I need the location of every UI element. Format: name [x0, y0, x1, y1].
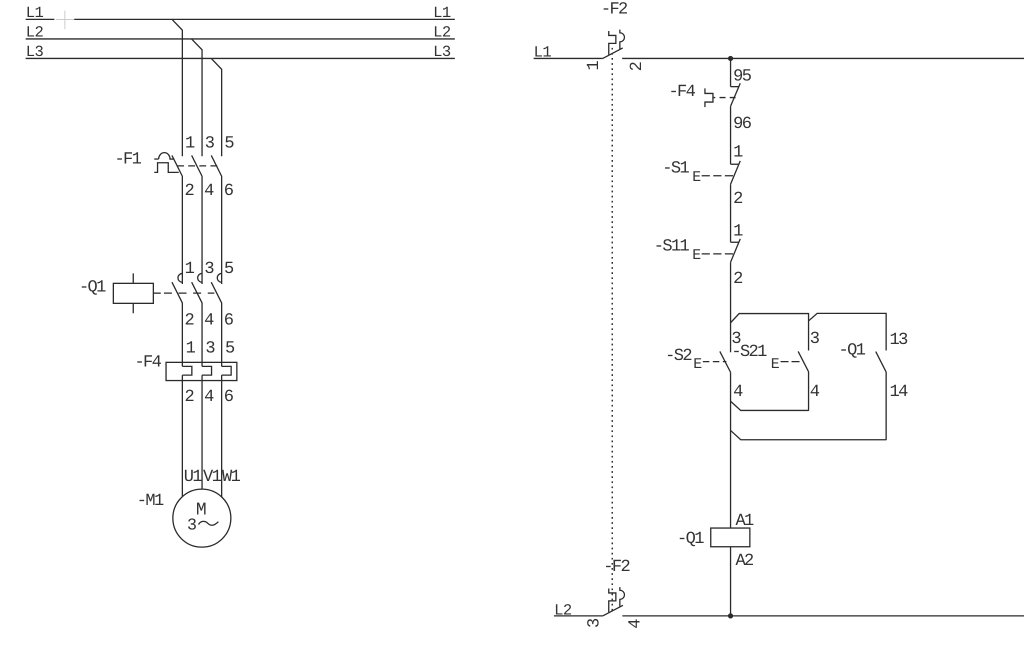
svg-text:U1: U1	[184, 468, 203, 487]
svg-text:5: 5	[224, 260, 234, 279]
svg-text:6: 6	[224, 388, 234, 407]
svg-text:2: 2	[733, 270, 742, 289]
svg-text:6: 6	[224, 182, 234, 201]
svg-text:4: 4	[810, 383, 820, 402]
svg-text:L1: L1	[433, 4, 451, 22]
svg-text:3: 3	[205, 340, 215, 359]
svg-text:L1: L1	[26, 4, 44, 22]
svg-text:2: 2	[628, 62, 647, 71]
svg-text:3: 3	[187, 516, 196, 535]
svg-text:95: 95	[733, 68, 752, 87]
svg-text:4: 4	[204, 311, 214, 330]
svg-text:1: 1	[185, 135, 195, 154]
svg-text:5: 5	[224, 135, 234, 154]
svg-text:1: 1	[733, 223, 743, 242]
svg-text:3: 3	[205, 135, 215, 154]
svg-text:3: 3	[585, 618, 604, 628]
svg-text:4: 4	[204, 182, 214, 201]
svg-text:L2: L2	[26, 24, 44, 42]
svg-text:4: 4	[627, 619, 646, 629]
svg-text:2: 2	[184, 388, 193, 407]
svg-text:-F2: -F2	[601, 1, 627, 20]
svg-text:2: 2	[733, 190, 742, 209]
svg-text:4: 4	[733, 383, 743, 402]
svg-text:L1: L1	[534, 44, 552, 62]
svg-text:6: 6	[224, 311, 234, 330]
svg-text:5: 5	[225, 340, 235, 359]
svg-text:L2: L2	[554, 602, 572, 620]
svg-text:-S2: -S2	[665, 347, 691, 366]
svg-text:3: 3	[204, 260, 214, 279]
svg-text:L3: L3	[433, 43, 451, 61]
svg-text:13: 13	[890, 331, 909, 350]
svg-text:2: 2	[184, 182, 193, 201]
svg-text:1: 1	[733, 144, 743, 163]
svg-text:14: 14	[890, 383, 909, 402]
svg-text:-F4: -F4	[134, 353, 161, 372]
svg-text:A2: A2	[735, 552, 753, 571]
svg-text:96: 96	[733, 115, 752, 134]
svg-text:-Q1: -Q1	[79, 278, 106, 297]
svg-text:A1: A1	[735, 512, 754, 531]
svg-text:W1: W1	[222, 468, 241, 487]
svg-text:-Q1: -Q1	[677, 530, 704, 549]
svg-text:1: 1	[185, 260, 195, 279]
svg-text:-S1: -S1	[662, 160, 689, 179]
svg-text:1: 1	[186, 340, 196, 359]
svg-text:-F2: -F2	[603, 558, 629, 577]
svg-text:1: 1	[585, 60, 604, 70]
svg-text:4: 4	[204, 388, 214, 407]
svg-text:M: M	[196, 500, 206, 520]
svg-text:L2: L2	[433, 24, 451, 42]
svg-text:V1: V1	[203, 468, 222, 487]
svg-text:-F4: -F4	[668, 83, 695, 102]
svg-text:-Q1: -Q1	[839, 341, 866, 360]
svg-text:-M1: -M1	[137, 492, 164, 511]
svg-text:-S11: -S11	[654, 238, 690, 257]
svg-text:2: 2	[184, 311, 193, 330]
svg-text:3: 3	[810, 330, 820, 349]
svg-text:-F1: -F1	[114, 150, 141, 169]
svg-text:L3: L3	[26, 43, 44, 61]
svg-text:-S21: -S21	[731, 343, 767, 362]
